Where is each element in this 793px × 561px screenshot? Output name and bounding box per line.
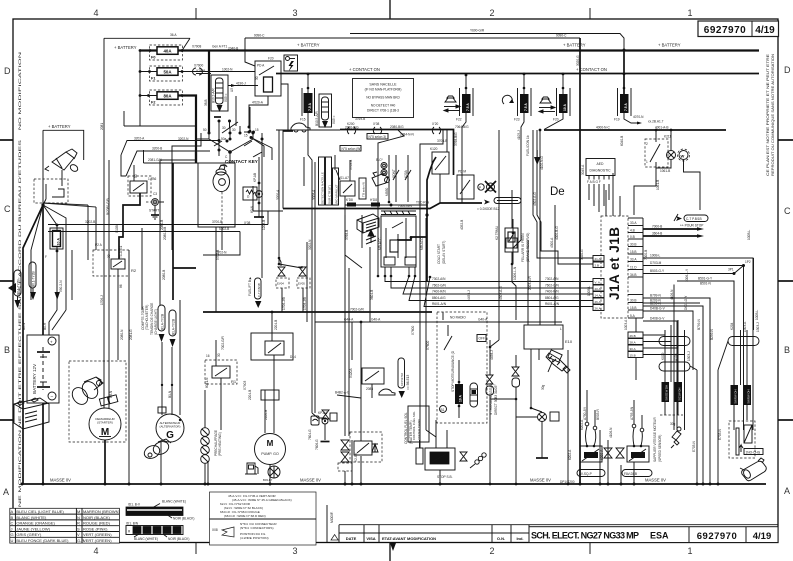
valve pair bottom (276, 258, 310, 312)
svg-text:80A: 80A (163, 94, 172, 99)
warning lamp circle (667, 151, 676, 160)
svg-text:16: 16 (206, 354, 210, 358)
svg-text:A: A (784, 486, 790, 496)
lamp resistor blocks 5W/21W (662, 382, 670, 402)
svg-text:A: A (11, 509, 14, 514)
fuse F19 (614, 73, 664, 125)
svg-text:30: 30 (222, 126, 226, 130)
svg-text:U: U (11, 538, 14, 543)
svg-text:B0-R: B0-R (43, 322, 47, 330)
arrow head down on wire (55, 292, 60, 300)
svg-text:C: C (784, 206, 791, 216)
svg-text:S1-A7: S1-A7 (340, 176, 349, 180)
svg-text:30: 30 (232, 128, 236, 132)
ground bus MASSE 0V (21, 483, 766, 485)
svg-text:5702-B: 5702-B (219, 227, 229, 231)
antenna arrow symbol (366, 230, 376, 244)
long vertical 9090 drop (579, 38, 581, 310)
svg-text:NOIR (BLACK): NOIR (BLACK) (173, 517, 194, 521)
svg-text:3P1: 3P1 (728, 268, 734, 272)
resistor box with ohm (243, 187, 257, 200)
svg-text:1061-B: 1061-B (656, 180, 660, 190)
bottom zone tick x196 (195, 543, 197, 555)
svg-text:3020-G: 3020-G (576, 55, 580, 66)
svg-text:B1.A-TY2B: B1.A-TY2B (172, 319, 176, 335)
fuse F0 40A (150, 45, 183, 60)
svg-text:F: F (45, 255, 47, 259)
thick vertical feed right (172, 163, 174, 300)
thick horizontal to key box (173, 267, 196, 269)
termination T (283, 130, 293, 132)
svg-text:B203-N: B203-N (650, 299, 662, 303)
wire from key down-left (160, 139, 209, 160)
svg-text:DATE: DATE (346, 536, 357, 541)
svg-text:CONTROL FUEL SOL: CONTROL FUEL SOL (404, 412, 408, 444)
svg-text:SCH. ELECT. NG27 NG33 MP: SCH. ELECT. NG27 NG33 MP (531, 531, 639, 541)
ring indicator pair (381, 163, 387, 169)
svg-text:AV-SQ-P: AV-SQ-P (579, 472, 592, 476)
B1 circle (440, 406, 447, 413)
svg-text:MASSE 0V: MASSE 0V (645, 478, 666, 483)
svg-text:2084-N-N: 2084-N-N (400, 133, 415, 137)
B203-N wires (643, 302, 700, 304)
rotated pill labels with arrows (158, 305, 165, 342)
svg-text:40A: 40A (163, 49, 172, 54)
svg-text:V..A: V..A (595, 281, 600, 285)
svg-text:MB.ACC: MB.ACC (378, 237, 382, 250)
svg-text:30g: 30g (670, 422, 676, 426)
svg-text:21.A: 21.A (595, 257, 601, 261)
svg-text:J1A et J1B: J1A et J1B (607, 226, 622, 300)
svg-text:26.A: 26.A (595, 307, 601, 311)
svg-text:5W/21W DH: 5W/21W DH (665, 385, 669, 401)
wire 3604-B with arrow (643, 235, 697, 237)
svg-text:30.B: 30.B (630, 243, 637, 247)
svg-text:B503-R: B503-R (596, 408, 600, 420)
svg-text:6200-A: 6200-A (600, 449, 604, 460)
boxed label N5 selon 3 (367, 134, 388, 140)
Y600-G/R line (350, 34, 624, 51)
K2 column (498, 217, 500, 340)
nested corner wire 2 (673, 285, 675, 431)
pump motor wires (264, 390, 266, 433)
top zone tick x196 (195, 8, 197, 19)
svg-text:1006-L-Y: 1006-L-Y (685, 268, 689, 282)
arrow and stop ref stadium (676, 216, 682, 221)
9090 feed corner to PD A (245, 38, 255, 66)
svg-text:B: B (11, 515, 14, 520)
svg-text:MASSE 0V: MASSE 0V (530, 478, 551, 483)
K211 switch (645, 129, 671, 167)
battery minus to ground (42, 403, 44, 484)
svg-text:N°5 selon (W): N°5 selon (W) (342, 147, 362, 151)
pill connector right (728, 337, 759, 346)
svg-text:7.5 A: 7.5 A (308, 102, 312, 111)
svg-text:2080-B/G: 2080-B/G (390, 125, 404, 129)
svg-text:X05 =: X05 = (224, 93, 228, 102)
dashed service box (729, 421, 755, 458)
K200 connector (347, 127, 349, 134)
cross wire at y126 (124, 125, 196, 127)
switch contact (45, 184, 47, 199)
fuse F21 (544, 73, 570, 130)
X08 arrow symbol (222, 527, 234, 537)
gauge circle icon (268, 466, 280, 478)
svg-text:B1.A-TY2B: B1.A-TY2B (161, 314, 165, 330)
svg-text:+ BATTERY: + BATTERY (114, 45, 137, 50)
svg-text:E703-N: E703-N (718, 428, 722, 440)
svg-text:X7908: X7908 (192, 45, 201, 49)
top zone tick x390 long (389, 0, 391, 19)
svg-text:26.B: 26.B (630, 334, 636, 338)
svg-text:3: 3 (292, 8, 297, 18)
wires above valves (489, 340, 491, 375)
svg-text:8804-A/G: 8804-A/G (432, 296, 446, 300)
svg-text:1706-J/B: 1706-J/B (282, 297, 286, 310)
node on battery bus (139, 49, 142, 52)
svg-text:4190-J: 4190-J (236, 82, 246, 86)
svg-text:C: C (11, 521, 14, 526)
+CONTACT ON bus (276, 73, 759, 75)
extra pin boxes (593, 256, 604, 262)
svg-text:E10: E10 (565, 339, 573, 344)
svg-text:MODIF.: MODIF. (330, 511, 334, 523)
svg-text:3768-B: 3768-B (349, 160, 353, 170)
svg-text:7602-G/N: 7602-G/N (432, 284, 447, 288)
svg-text:EV04: EV04 (277, 282, 284, 286)
svg-text:L: L (560, 327, 562, 331)
svg-text:2081: 2081 (100, 123, 104, 130)
svg-text:F15: F15 (300, 118, 306, 122)
svg-text:4450-J: 4450-J (467, 290, 471, 300)
wire B503-G-Y (643, 266, 744, 274)
+BATTERY bus (140, 49, 759, 51)
lamp ground (541, 422, 543, 459)
long verticals from key area down (261, 152, 263, 278)
svg-text:K211: K211 (664, 135, 671, 139)
svg-text:+ BATTERY: + BATTERY (48, 124, 71, 129)
svg-text:N: N (77, 515, 80, 520)
svg-text:X7600: X7600 (426, 341, 430, 350)
svg-text:X'08: X'08 (244, 221, 251, 225)
svg-text:SANS NACELLE: SANS NACELLE (369, 83, 397, 87)
svg-text:A755-J/N: A755-J/N (630, 406, 634, 420)
svg-text:B501-G-Y: B501-G-Y (698, 277, 713, 281)
svg-text:9090-C: 9090-C (556, 34, 567, 38)
svg-text:PUMP. GO: PUMP. GO (261, 452, 279, 456)
svg-text:B501-N: B501-N (700, 282, 712, 286)
long feeder vertical x104 (103, 38, 105, 361)
wire to fuse F2 (140, 95, 157, 97)
left mid extra wires (87, 205, 89, 260)
svg-text:VERT (GREEN): VERT (GREEN) (83, 532, 112, 537)
svg-text:CONTROL FUEL SOL: CONTROL FUEL SOL (412, 411, 416, 440)
fuse 10A vertical (45, 224, 63, 268)
plus terminal (48, 337, 56, 345)
valve cluster mid-left (322, 410, 329, 419)
key cluster extra dots (218, 120, 221, 123)
fuse 10A in box (455, 384, 463, 404)
relay + diode cluster (350, 432, 382, 462)
svg-text:5/21W DH: 5/21W DH (678, 388, 682, 401)
svg-text:30: 30 (107, 254, 111, 258)
alternator 3d sketch (142, 439, 171, 461)
relay K14 mid (251, 333, 293, 360)
svg-text:U5: U5 (230, 88, 234, 92)
starter motor circle (89, 408, 121, 440)
svg-text:R: R (77, 521, 80, 526)
relay contact blade (259, 66, 274, 75)
svg-text:C-T P.B/1B: C-T P.B/1B (257, 283, 261, 297)
valve assembly AV-SQ-P (577, 390, 605, 477)
svg-text:MARRON (BROWN): MARRON (BROWN) (83, 509, 121, 514)
stadium rotated label with arrow (255, 278, 262, 299)
svg-text:1003-A: 1003-A (624, 319, 628, 330)
svg-text:B03-B7: B03-B7 (263, 478, 273, 482)
svg-text:(CHARGE LIGHT): (CHARGE LIGHT) (154, 309, 158, 335)
svg-text:33.A: 33.A (630, 221, 637, 225)
wire B799-N (643, 298, 710, 430)
NO RADIO inner switch (444, 336, 452, 350)
svg-text:D: D (784, 65, 791, 75)
svg-text:20.A: 20.A (595, 287, 601, 291)
svg-text:7.5 A: 7.5 A (624, 103, 628, 111)
9090-C line (245, 37, 580, 39)
svg-text:B10.2-A/R: B10.2-A/R (212, 88, 216, 103)
wire E10 down long (530, 370, 532, 408)
wires into start relay (121, 155, 126, 176)
svg-text:50A: 50A (163, 70, 172, 75)
svg-text:3202-N: 3202-N (178, 137, 189, 141)
svg-text:C: C (4, 204, 11, 214)
valve assembly FAV-DI-B (622, 400, 652, 477)
svg-text:M: M (77, 509, 80, 514)
fuse F2 80A (150, 90, 183, 105)
svg-text:JAUNE (YELLOW): JAUNE (YELLOW) (16, 526, 50, 531)
left small arrow triangle (8, 283, 16, 293)
svg-text:50: 50 (134, 174, 138, 178)
svg-text:30g: 30g (541, 384, 545, 390)
long vertical 580 to ground (579, 310, 581, 484)
X'08 connector (373, 127, 375, 134)
svg-text:3: 3 (292, 546, 297, 556)
svg-text:3768-B: 3768-B (345, 230, 349, 240)
svg-text:7400-R/N: 7400-R/N (432, 290, 446, 294)
svg-text:R601-A/N: R601-A/N (545, 302, 560, 306)
svg-text:K20A: K20A (404, 169, 408, 178)
svg-text:86: 86 (119, 284, 123, 288)
right zone tick y140 (778, 139, 793, 141)
svg-text:100B-L: 100B-L (747, 229, 751, 240)
svg-text:G40-A: G40-A (371, 318, 381, 322)
fan wire 3 to battery (42, 205, 44, 335)
svg-text:3202-A: 3202-A (134, 137, 145, 141)
svg-text:ID1. B/N: ID1. B/N (126, 522, 139, 526)
svg-text:F22: F22 (456, 118, 462, 122)
pill connector left bottom (659, 362, 690, 371)
svg-text:1303-A: 1303-A (743, 321, 747, 332)
svg-text:10 A: 10 A (459, 395, 463, 402)
5W/5W blocks right (731, 385, 739, 405)
platform icon + arrows F22 (444, 96, 460, 112)
wire strip A to relay (228, 85, 258, 87)
svg-text:0.B: 0.B (630, 235, 635, 239)
svg-text:2080-N: 2080-N (120, 329, 124, 340)
start button (152, 199, 159, 206)
svg-text:SONT: SONT (392, 169, 396, 178)
thick run from fuse block down (195, 152, 197, 163)
hatched divider lines (381, 211, 416, 215)
svg-text:+ BATTERY: + BATTERY (563, 43, 586, 48)
starter ground (104, 440, 106, 484)
svg-text:X120A: X120A (349, 368, 353, 378)
svg-text:590-2-N: 590-2-N (59, 280, 63, 292)
svg-text:STOP MOTEUR/AVANCE (D: STOP MOTEUR/AVANCE (D (451, 350, 455, 392)
wiring legend note box (210, 492, 317, 545)
S04 connector blob (548, 350, 562, 362)
K120 second box (432, 152, 449, 174)
extra vertical 568 (567, 350, 569, 484)
svg-text:36.A: 36.A (170, 33, 177, 37)
svg-text:X7903: X7903 (243, 381, 247, 390)
svg-text:R2: R2 (131, 268, 137, 273)
svg-text:30.B: 30.B (630, 299, 637, 303)
wire G40-A horizontal (315, 321, 562, 323)
P circle (478, 184, 484, 190)
svg-text:7.5 A: 7.5 A (524, 103, 528, 111)
wire 3200-B (126, 151, 210, 176)
svg-text:5W/5W DH: 5W/5W DH (734, 390, 738, 404)
svg-text:B503-G-Y: B503-G-Y (650, 269, 665, 273)
svg-text:15.B: 15.B (630, 306, 637, 310)
svg-text:T1-A-G1: T1-A-G1 (119, 246, 123, 258)
svg-text:A105: A105 (674, 353, 678, 361)
svg-text:3768-B/G: 3768-B/G (454, 132, 458, 146)
dots on ground bus (160, 483, 163, 486)
svg-text:X7905: X7905 (196, 69, 205, 73)
wire key to switch (61, 170, 63, 186)
alternator circle (156, 414, 184, 442)
stadium pill with arrow (398, 358, 405, 388)
wires from lamps (656, 160, 671, 168)
svg-text:EV05: EV05 (298, 282, 305, 286)
svg-text:K2 TRMU: K2 TRMU (495, 225, 499, 240)
left zone tick y420 (0, 419, 13, 421)
barrel dashes (221, 192, 223, 224)
svg-text:O.N.: O.N. (497, 536, 505, 541)
svg-text:1061-B: 1061-B (660, 169, 670, 173)
svg-text:VISA: VISA (366, 536, 375, 541)
relay K47 (340, 181, 355, 196)
svg-text:B1-N: B1-N (168, 390, 172, 398)
extra wire stubs bottom (489, 399, 491, 484)
cell symbol (42, 347, 44, 390)
svg-text:5W/5W DH: 5W/5W DH (747, 390, 751, 404)
svg-text:K'D8: K'D8 (346, 198, 353, 202)
fuse F0 output wire to 36.A line (178, 38, 190, 50)
svg-text:DIAGNOSTIC: DIAGNOSTIC (589, 169, 611, 173)
svg-text:7002-G/R: 7002-G/R (350, 308, 365, 312)
svg-text:1203-B: 1203-B (262, 220, 266, 230)
relay output wire down (249, 96, 268, 127)
svg-text:X08: X08 (212, 528, 218, 532)
wires from key going left (48, 224, 268, 226)
bottom zone tick x590 (589, 543, 591, 555)
svg-text:(STARTER): (STARTER) (97, 421, 113, 425)
left area verticals (159, 160, 161, 305)
bottom zone tick x390 long (389, 543, 391, 561)
wire 100B-L (643, 258, 753, 430)
node fuse row2 (139, 70, 142, 73)
svg-text:G40-A: G40-A (478, 318, 488, 322)
key assembly box (198, 163, 235, 227)
buzzer 3d box (357, 214, 379, 233)
svg-text:(68.D-R : WIRE N° 68.D RED): (68.D-R : WIRE N° 68.D RED) (224, 514, 266, 518)
long verticals to ground (696, 370, 698, 484)
svg-text:X'08: X'08 (373, 122, 380, 126)
svg-text:NO BYPASS MAN BKD: NO BYPASS MAN BKD (366, 96, 400, 100)
svg-text:2204-B: 2204-B (274, 320, 278, 330)
verticals from nacelle cluster (369, 260, 371, 322)
svg-text:STOP S.B.: STOP S.B. (437, 475, 453, 479)
fuse F23 (514, 73, 531, 175)
svg-text:X7600: X7600 (411, 326, 415, 335)
platform icon + arrows F21 (539, 97, 555, 113)
wire B299-N (643, 306, 703, 430)
svg-text:E703-N: E703-N (692, 440, 696, 452)
svg-text:2: 2 (646, 142, 648, 146)
svg-text:11.D: 11.D (630, 266, 637, 270)
svg-text:4300-A: 4300-A (550, 237, 554, 248)
car icon (291, 123, 310, 132)
svg-text:(NO MAN(L)(T: (NO MAN(L)(T (335, 184, 339, 204)
mid verticals to ground (128, 250, 130, 484)
drop from F23 (520, 175, 522, 240)
thick distribution line right (544, 129, 726, 131)
svg-text:SAPPLIER VITESSE MOTEUR: SAPPLIER VITESSE MOTEUR (653, 417, 657, 462)
connector pill in box (470, 383, 478, 407)
top zone tick x590 (589, 8, 591, 19)
svg-text:3045-A: 3045-A (581, 164, 585, 175)
svg-text:ROUGE (RED): ROUGE (RED) (83, 521, 111, 526)
svg-text:4106-N: 4106-N (670, 289, 674, 300)
svg-text:B0.1-TY2B: B0.1-TY2B (32, 271, 36, 287)
disconnect switch dashed box (34, 179, 68, 203)
svg-text:3708-B: 3708-B (437, 139, 447, 143)
drop from F22 (461, 160, 463, 203)
svg-text:BLEU FONCE (DARK BLUE): BLEU FONCE (DARK BLUE) (16, 538, 69, 543)
svg-text:COLD START: COLD START (437, 244, 441, 264)
boxed label N5 selon W (340, 146, 361, 152)
twin bowtie valves mid (604, 448, 612, 458)
rotated boxed label T'B selon W (359, 178, 366, 199)
small switch left of labels (416, 448, 423, 464)
svg-text:7000-B: 7000-B (652, 225, 662, 229)
ground bus junction dots (599, 483, 602, 486)
SANS NACELLE note box (353, 79, 414, 118)
svg-text:S: S (77, 526, 80, 531)
svg-text:3020-G: 3020-G (580, 249, 584, 260)
key switch contacts (209, 126, 262, 157)
svg-text:G: G (166, 430, 174, 441)
svg-text:ORANGE (ORANGE): ORANGE (ORANGE) (16, 521, 55, 526)
svg-text:2206-B: 2206-B (264, 410, 268, 420)
svg-text:2080-B: 2080-B (160, 220, 164, 230)
svg-text:4052-B: 4052-B (460, 220, 464, 230)
pin column (628, 218, 643, 318)
svg-text:1.7B6: 1.7B6 (148, 177, 157, 181)
svg-text:7302-A/N: 7302-A/N (432, 277, 446, 281)
